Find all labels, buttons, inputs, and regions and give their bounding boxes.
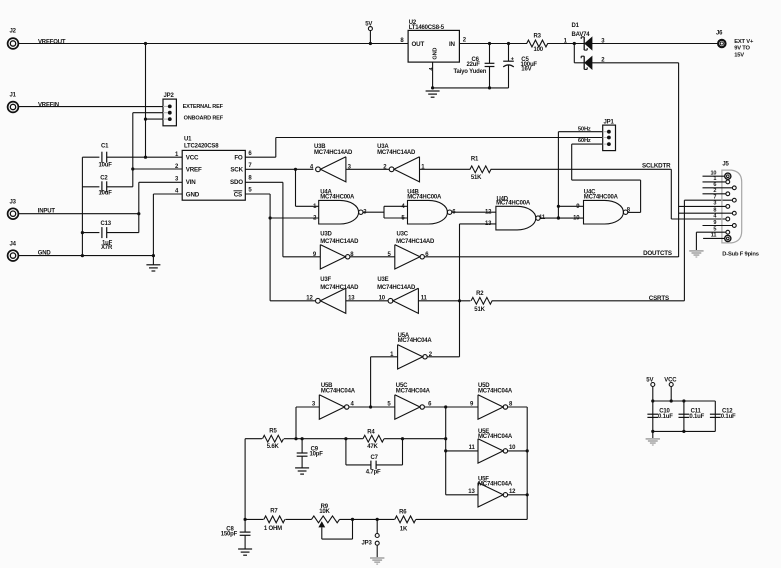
svg-text:10uF: 10uF [99, 191, 113, 197]
svg-text:X7R: X7R [101, 245, 113, 251]
svg-text:J1: J1 [10, 93, 17, 99]
svg-text:9: 9 [713, 220, 716, 226]
svg-text:3: 3 [713, 201, 716, 207]
svg-text:Taiyo Yuden: Taiyo Yuden [454, 69, 487, 75]
svg-text:U3F: U3F [320, 277, 331, 283]
svg-text:R5: R5 [269, 428, 277, 434]
svg-text:4.7pF: 4.7pF [366, 469, 381, 475]
svg-text:U3D: U3D [320, 232, 332, 238]
svg-text:FO: FO [234, 155, 243, 162]
svg-text:VREFIN: VREFIN [38, 102, 59, 108]
svg-text:5: 5 [713, 227, 716, 233]
svg-text:10: 10 [509, 445, 516, 451]
svg-text:LTC2420CS8: LTC2420CS8 [184, 143, 219, 149]
svg-text:D1: D1 [572, 23, 580, 29]
svg-text:R6: R6 [399, 509, 407, 515]
svg-text:MC74HC04A: MC74HC04A [478, 434, 513, 440]
svg-text:MC74HC14AD: MC74HC14AD [377, 150, 416, 156]
svg-text:VREFOUT: VREFOUT [38, 39, 66, 45]
svg-text:R7: R7 [270, 508, 278, 514]
svg-text:J5: J5 [722, 161, 729, 167]
svg-text:CSRTS: CSRTS [649, 295, 669, 302]
svg-text:EXT V+: EXT V+ [734, 39, 754, 45]
svg-text:100: 100 [534, 47, 544, 53]
svg-text:12: 12 [306, 296, 313, 302]
svg-text:7: 7 [713, 195, 716, 201]
svg-text:JP2: JP2 [164, 93, 175, 99]
svg-text:R4: R4 [367, 429, 375, 435]
svg-text:5V: 5V [365, 22, 372, 28]
svg-text:VREF: VREF [186, 167, 202, 174]
svg-text:IN: IN [449, 41, 456, 48]
svg-text:12: 12 [485, 210, 492, 216]
svg-text:MC74HC04A: MC74HC04A [478, 481, 513, 487]
svg-text:J3: J3 [10, 199, 17, 205]
svg-text:VIN: VIN [186, 179, 197, 186]
svg-text:MC74HC04A: MC74HC04A [396, 388, 431, 394]
svg-text:2: 2 [713, 188, 716, 194]
svg-text:U3A: U3A [377, 144, 389, 150]
svg-text:JP3: JP3 [362, 541, 373, 547]
svg-text:0.1uF: 0.1uF [689, 414, 704, 420]
svg-text:9V TO: 9V TO [734, 46, 750, 52]
svg-text:1K: 1K [400, 527, 408, 533]
svg-text:ONBOARD REF: ONBOARD REF [184, 116, 224, 122]
svg-text:MC74HC00A: MC74HC00A [584, 195, 619, 201]
svg-text:U1: U1 [184, 136, 192, 142]
svg-text:C13: C13 [101, 221, 112, 227]
svg-text:VCC: VCC [664, 378, 677, 384]
svg-text:MC74HC14AD: MC74HC14AD [320, 239, 359, 245]
svg-text:10pF: 10pF [310, 451, 324, 457]
svg-text:MC74HC14AD: MC74HC14AD [377, 285, 416, 291]
svg-text:U3B: U3B [314, 144, 326, 150]
svg-text:U3C: U3C [397, 232, 409, 238]
svg-text:GND: GND [433, 48, 439, 60]
svg-text:SCK: SCK [230, 167, 243, 174]
svg-text:10K: 10K [319, 509, 330, 515]
svg-text:C7: C7 [371, 455, 379, 461]
svg-text:MC74HC04A: MC74HC04A [321, 388, 356, 394]
svg-text:5V: 5V [646, 378, 653, 384]
svg-text:J4: J4 [10, 241, 17, 247]
svg-text:DOUTCTS: DOUTCTS [643, 250, 672, 257]
svg-text:OUT: OUT [412, 41, 425, 48]
svg-text:GND: GND [186, 191, 200, 198]
svg-text:22uF: 22uF [467, 62, 481, 68]
svg-text:C1: C1 [101, 144, 109, 150]
svg-text:MC74HC14AD: MC74HC14AD [320, 285, 359, 291]
svg-text:R2: R2 [476, 291, 484, 297]
svg-text:VCC: VCC [186, 155, 199, 162]
svg-text:150pF: 150pF [221, 531, 238, 537]
svg-text:60Hz: 60Hz [578, 138, 591, 144]
svg-text:47K: 47K [367, 444, 378, 450]
svg-text:10uF: 10uF [99, 163, 113, 169]
svg-text:MC74HC04A: MC74HC04A [478, 388, 513, 394]
svg-text:MC74HC00A: MC74HC00A [496, 200, 531, 206]
svg-text:MC74HC04A: MC74HC04A [398, 338, 433, 344]
svg-text:MC74HC00A: MC74HC00A [407, 194, 442, 200]
svg-text:15V: 15V [734, 52, 744, 58]
svg-text:10: 10 [379, 296, 386, 302]
svg-text:0.1uF: 0.1uF [658, 414, 673, 420]
svg-text:MC74HC14AD: MC74HC14AD [396, 239, 435, 245]
svg-text:MC74HC00A: MC74HC00A [320, 194, 355, 200]
svg-text:51K: 51K [471, 175, 482, 181]
svg-text:1 OHM: 1 OHM [264, 526, 282, 532]
svg-text:EXTERNAL REF: EXTERNAL REF [183, 104, 224, 110]
svg-text:0.1uF: 0.1uF [721, 414, 736, 420]
svg-text:51K: 51K [474, 307, 485, 313]
svg-text:10: 10 [573, 216, 580, 222]
svg-text:D-Sub F 9pins: D-Sub F 9pins [722, 251, 758, 257]
svg-text:SCLKDTR: SCLKDTR [642, 162, 671, 169]
svg-text:MC74HC14AD: MC74HC14AD [314, 150, 353, 156]
svg-text:5.6K: 5.6K [267, 444, 280, 450]
svg-text:SDO: SDO [230, 179, 243, 186]
svg-text:LT1460CS8-5: LT1460CS8-5 [409, 25, 445, 31]
svg-text:JP1: JP1 [604, 119, 615, 125]
svg-text:R1: R1 [471, 157, 479, 163]
svg-text:11: 11 [469, 445, 476, 451]
svg-text:11: 11 [711, 233, 717, 239]
svg-text:CS: CS [234, 191, 242, 198]
svg-text:U3E: U3E [377, 277, 388, 283]
svg-text:J2: J2 [10, 29, 17, 35]
svg-text:16V: 16V [521, 67, 531, 73]
svg-text:C2: C2 [100, 176, 108, 182]
svg-text:J6: J6 [716, 31, 723, 37]
svg-text:R3: R3 [534, 34, 542, 40]
